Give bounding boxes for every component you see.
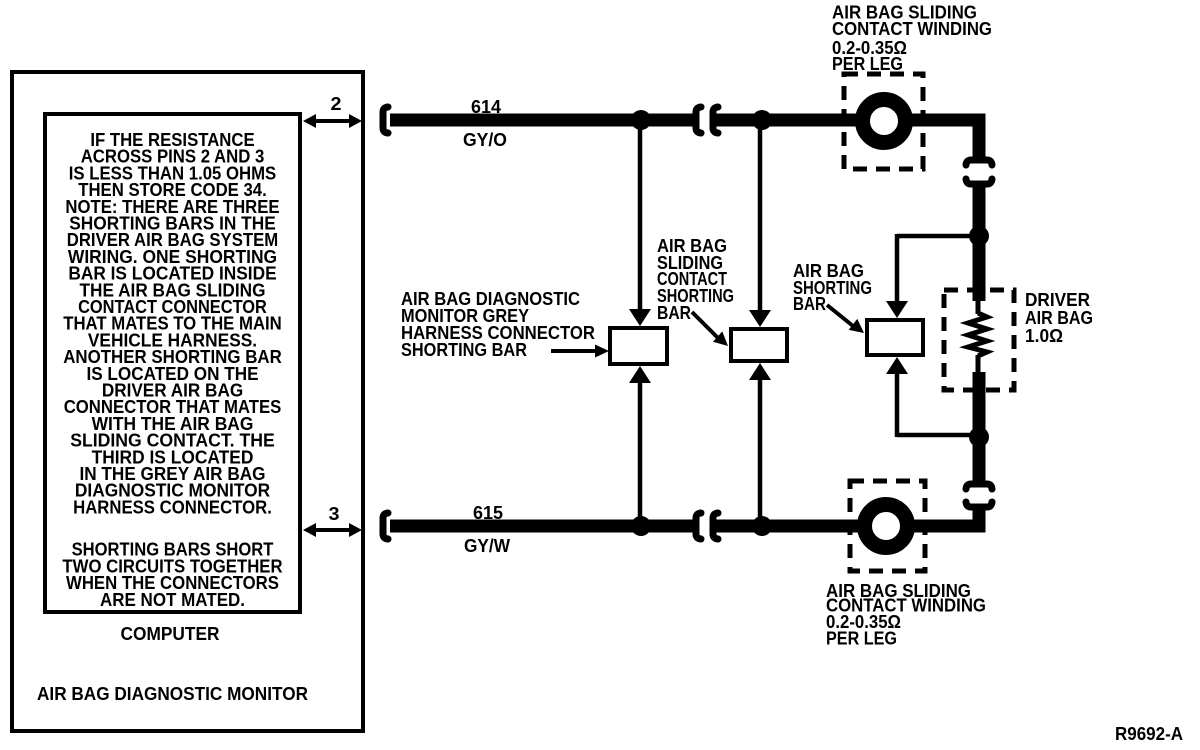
junction dot B (bottom of driver air bag) (969, 427, 989, 447)
connector half at monitor pin 3 (383, 513, 388, 539)
label air bag sliding contact shorting bar (657, 236, 734, 323)
branch wire from shorting bar 1 to 615 with arrow (629, 366, 651, 521)
label DRIVER AIR BAG 1.0 ohm (1025, 290, 1093, 346)
svg-text:614: 614 (471, 97, 501, 117)
top winding dashed box (844, 74, 923, 169)
connector lower half, hooks up (966, 502, 992, 507)
svg-text:615: 615 (473, 503, 503, 523)
wire 614 segment from monitor to inline connector (390, 114, 697, 127)
bottom winding dashed box (850, 481, 925, 571)
shorting bar 3 (air bag shorting bar) (867, 320, 923, 355)
svg-text:BAR: BAR (793, 294, 826, 314)
pin 3 double-headed arrow (303, 523, 362, 537)
svg-text:COMPUTER: COMPUTER (121, 624, 220, 644)
air bag sliding contact winding (top) (863, 100, 906, 143)
monitor outer box (AIR BAG DIAGNOSTIC MONITOR enclosure) (12, 72, 363, 731)
resistor R (driver air bag squib 1.0 ohm) (968, 299, 987, 374)
wire 614 segment to sliding contact winding, corner down (713, 120, 979, 159)
svg-text:AIR BAG: AIR BAG (1025, 308, 1093, 328)
wire junction B down, connector upper half hooks down (966, 437, 992, 489)
pointer arrow to shorting bar 1 (551, 345, 609, 358)
svg-text:AIR BAG DIAGNOSTIC MONITOR: AIR BAG DIAGNOSTIC MONITOR (37, 684, 308, 704)
connector on right leg below top winding: upper half, hooks down (966, 160, 992, 165)
shorting bar 1 (diagnostic monitor grey harness connector shorting bar) (610, 328, 667, 364)
wire 615 segment to bottom winding, corner up (713, 507, 979, 526)
svg-text:PER LEG: PER LEG (826, 629, 897, 649)
pointer arrow to shorting bar 2 (692, 312, 728, 346)
driver air bag dashed box (944, 290, 1014, 390)
air bag sliding contact winding (bottom) (865, 505, 908, 548)
branch wire from 614 to shorting bar 2 with arrow (749, 124, 771, 327)
svg-text:3: 3 (329, 504, 340, 524)
pin 2 double-headed arrow (303, 114, 362, 128)
svg-text:GY/O: GY/O (463, 130, 507, 150)
shorting bar 2 (air bag sliding contact shorting bar) (731, 329, 787, 361)
svg-text:PER LEG: PER LEG (832, 54, 903, 74)
label air bag shorting bar (793, 261, 872, 314)
svg-text:CONTACT WINDING: CONTACT WINDING (832, 19, 992, 39)
note box (computer note) (45, 114, 300, 612)
label air bag sliding contact winding bottom (826, 581, 986, 649)
wire junction A to driver air bag (973, 236, 986, 301)
svg-text:1.0Ω: 1.0Ω (1025, 326, 1063, 346)
svg-text:GY/W: GY/W (464, 536, 510, 556)
svg-text:ARE NOT MATED.: ARE NOT MATED. (100, 590, 245, 610)
connector lower half, hooks up, wire to junction A (966, 179, 992, 236)
branch wire from 614 to shorting bar 1 with arrow (629, 124, 651, 326)
svg-text:R9692-A: R9692-A (1115, 724, 1183, 744)
label air bag diagnostic monitor grey harness connector shorting bar (401, 289, 595, 360)
wire driver air bag to junction B (973, 372, 986, 437)
branch from shorting bar 3 to junction B with arrow (886, 357, 975, 437)
label air bag sliding contact winding top (832, 3, 992, 75)
svg-text:HARNESS CONNECTOR.: HARNESS CONNECTOR. (73, 497, 272, 517)
pointer arrow to shorting bar 3 (827, 305, 864, 333)
svg-text:2: 2 (331, 94, 342, 114)
svg-text:DRIVER: DRIVER (1025, 290, 1090, 310)
junction dot wire 614 / bar 1 (631, 110, 651, 130)
junction dot wire 615 / bar 1 (631, 516, 651, 536)
inline connector pair on wire 615 (696, 513, 718, 539)
branch from junction A to shorting bar 3 with arrow (886, 234, 975, 318)
inline connector pair on wire 614 (696, 107, 718, 133)
connector half at monitor pin 2 (383, 107, 388, 133)
junction dot wire 615 / bar 2 (752, 516, 772, 536)
svg-text:BAR: BAR (657, 303, 691, 323)
note text paragraph 2 (62, 540, 282, 610)
junction dot A (top of driver air bag) (969, 226, 989, 246)
junction dot wire 614 / bar 2 (752, 110, 772, 130)
wire 615 segment from monitor to inline connector (390, 520, 697, 533)
note text paragraph 1 (63, 130, 282, 517)
branch wire from shorting bar 2 to 615 with arrow (749, 363, 771, 521)
svg-text:SHORTING BAR: SHORTING BAR (401, 340, 527, 360)
